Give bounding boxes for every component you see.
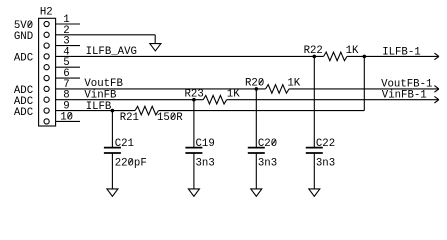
svg-text:VoutFB: VoutFB: [84, 78, 123, 90]
junction dot C21 top on ILFB: [111, 109, 115, 113]
svg-text:C22: C22: [316, 138, 335, 150]
svg-text:VinFB-1: VinFB-1: [382, 90, 427, 102]
pin 7 circle: [44, 86, 49, 91]
svg-text:3n3: 3n3: [316, 157, 335, 169]
capacitor C22 plates: [306, 147, 323, 149]
pin 9 circle: [44, 108, 49, 113]
wire GND vertical drop: [154, 35, 156, 44]
svg-text:C20: C20: [258, 138, 277, 150]
wire R20 right to VoutFB-1 arrow: [289, 88, 439, 90]
resistor R20 zigzag body: [266, 85, 289, 94]
pin 6 circle: [44, 76, 49, 81]
pin 5 circle: [44, 65, 49, 70]
capacitor C19 bottom lead: [193, 153, 195, 189]
pin 8 circle: [44, 97, 49, 102]
pin 3 stub wire: [56, 45, 80, 47]
resistor R23 zigzag body: [203, 95, 226, 104]
capacitor C19 plates: [185, 147, 202, 149]
svg-text:R20: R20: [245, 78, 264, 90]
ground symbol GND net: [150, 44, 161, 51]
wire R21 right toward R22 column: [159, 110, 365, 112]
junction dot R22 right: [363, 55, 367, 59]
svg-text:3n3: 3n3: [196, 157, 215, 169]
svg-text:R21: R21: [120, 112, 139, 124]
resistor R22 zigzag body: [324, 52, 347, 61]
resistor R21 zigzag body: [135, 106, 158, 115]
slashed zero in R20: [259, 79, 263, 85]
wire pin4 ILFB_AVG to R22: [56, 55, 324, 57]
junction dot R22 left / C22 top: [313, 55, 317, 59]
slashed zero in pin number 10: [68, 113, 72, 119]
wire R23 right to VinFB-1 arrow: [227, 99, 439, 101]
capacitor C21 top lead: [111, 111, 113, 148]
capacitor C20 bottom lead: [255, 153, 257, 189]
pin 2 circle: [44, 32, 49, 37]
pin 3 circle: [44, 43, 49, 48]
svg-text:ILFB-1: ILFB-1: [382, 46, 420, 58]
pin 10 stub wire: [56, 120, 80, 122]
capacitor C21 bottom lead: [111, 153, 113, 189]
ground symbol under C20: [251, 189, 262, 196]
slashed zero in 220pF: [129, 159, 133, 165]
slashed zero in 5V0: [28, 22, 32, 28]
svg-text:1K: 1K: [227, 89, 240, 101]
capacitor C19 top lead: [193, 100, 195, 148]
junction dot R20 left / C20 top: [254, 87, 258, 91]
ground symbol under C22: [309, 189, 320, 196]
capacitor C21 plates: [104, 147, 121, 149]
svg-text:ADC: ADC: [14, 53, 33, 65]
slashed zero in C20 label: [272, 140, 276, 146]
connector H2 body: [39, 18, 56, 126]
pin 6 stub wire: [56, 77, 80, 79]
capacitor C20 top lead: [255, 89, 257, 148]
pin 5 stub wire: [56, 66, 80, 68]
pin 4 circle: [44, 54, 49, 59]
junction dot R23 left / C19 top: [192, 98, 196, 102]
pin 10 circle: [44, 119, 49, 124]
wire R22 right to ILFB-1 arrow: [347, 55, 439, 57]
svg-text:C21: C21: [115, 138, 134, 150]
wire GND pin2 horizontal: [56, 34, 156, 36]
svg-text:150R: 150R: [157, 112, 183, 124]
svg-text:C19: C19: [196, 138, 215, 150]
svg-text:220pF: 220pF: [115, 157, 147, 169]
pin 1 circle: [44, 21, 49, 26]
wire pin9 ILFB to R21: [56, 110, 135, 112]
wire vertical R22 right terminal down to ILFB line: [363, 56, 365, 110]
off-page arrow VinFB-1: [434, 96, 439, 103]
pin 1 stub wire: [56, 23, 80, 25]
capacitor C22 bottom lead: [313, 153, 315, 189]
wire pin7 VoutFB to R20: [56, 88, 266, 90]
svg-text:H2: H2: [40, 7, 53, 19]
ground symbol under C19: [188, 189, 199, 196]
svg-text:GND: GND: [14, 31, 33, 43]
svg-text:1K: 1K: [287, 78, 300, 90]
off-page arrow ILFB-1: [434, 53, 439, 60]
svg-text:ADC: ADC: [14, 107, 33, 119]
slashed zero in 150R: [171, 114, 175, 120]
svg-text:1K: 1K: [346, 45, 359, 57]
capacitor C22 top lead: [313, 56, 315, 147]
svg-text:3n3: 3n3: [258, 157, 277, 169]
ground symbol under C21: [107, 189, 118, 196]
capacitor C20 plates: [248, 147, 265, 149]
wire pin8 VinFB to R23: [56, 99, 204, 101]
off-page arrow VoutFB-1: [434, 86, 439, 93]
